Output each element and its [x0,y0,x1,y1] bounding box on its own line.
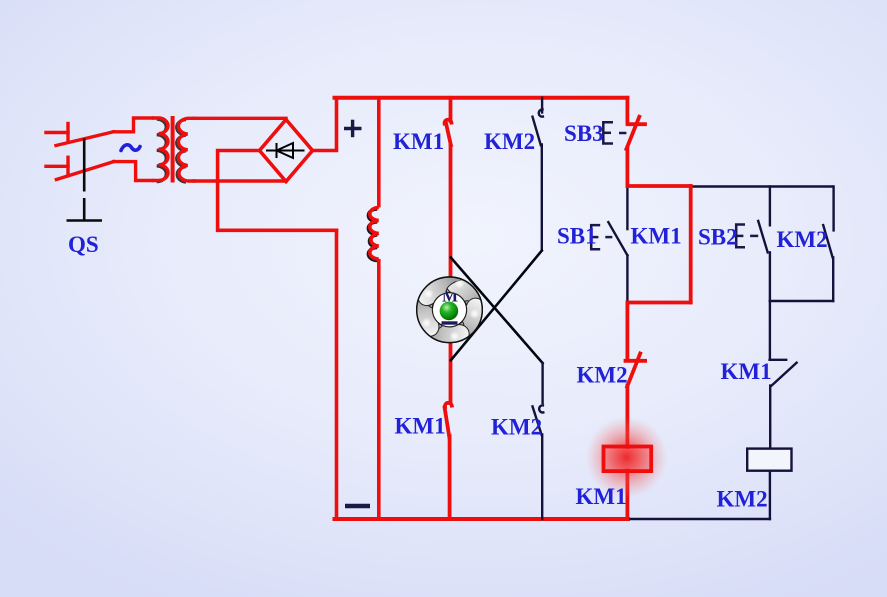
wire: KM1 coil bottom to bus [626,471,630,520]
QS fixed contact tick pole2 [66,157,69,175]
wire: SB3 bottom terminal [626,148,630,186]
wire: QS terminal stub L1 [46,131,68,134]
svg-text:KM2: KM2 [777,227,828,252]
wire: left bus vertical (negative) [335,230,339,519]
KM2 aux contact blade (open) [823,225,832,257]
transformer T secondary winding [178,118,196,181]
KM1 NC contact tick [770,359,787,361]
svg-text:KM1: KM1 [631,224,682,249]
diode symbol inside bridge [266,143,305,158]
QS mechanical link [67,139,103,221]
SB3 NC bridge bar [628,122,646,126]
svg-text:KM1: KM1 [721,359,772,384]
wire: KM2 main contact top terminal [541,98,543,113]
motor outer ring [417,277,483,343]
wire: top DC bus (+) [335,96,628,100]
coil KM1 body (energized) [604,447,652,472]
KM1 lower main contact hook [445,403,452,407]
wire: SB1 top terminal [626,186,628,229]
svg-text:SB2: SB2 [698,225,738,250]
wire: bridge left vertex to negative rail [218,151,337,231]
wire: KM2 aux top terminal [832,187,834,231]
svg-text:KM2: KM2 [484,129,535,154]
svg-text:KM2: KM2 [491,415,542,440]
wire: secondary bottom to bridge bottom vertex [194,179,286,182]
KM2 main contact hook [539,109,543,116]
KM2 lower contact hook [539,405,543,412]
transformer T primary winding [152,118,168,181]
SB1 branch (black) [608,186,833,519]
transformer T core [171,116,175,183]
wire: KM1 main contact top terminal [449,98,453,121]
pushbutton actuator SB2 [736,225,758,248]
wire: red node rail bottom [627,301,690,305]
wire: secondary top to bridge top vertex [194,117,286,120]
motor outer outline [417,277,483,343]
KM2 NC contact blade (closed) [627,354,640,387]
KM1 main contact hook [445,120,452,124]
wire: KM2 aux bottom terminal [832,257,834,301]
svg-text:KM2: KM2 [577,363,628,388]
wire: KM2 NC top terminal [626,303,630,361]
QS knife blade pole2 [56,162,113,180]
wire: SB1 bottom terminal [626,255,628,302]
wire: blade2 to transformer primary bottom [114,162,152,181]
wire: bottom control rail (black) [628,518,770,520]
wire: motor branch through armature [449,145,453,403]
KM1 coil glow [586,417,668,499]
inductor (field winding) branch [370,98,379,519]
KM2 NC contact tick bar [626,359,646,363]
svg-text:SB1: SB1 [557,224,597,249]
SB1 start button contact blade (open) [608,222,627,255]
wire: blade1 to transformer primary top [114,118,153,132]
KM2 main contact blade (open) [533,117,541,146]
wire: control top rail (black) [691,185,834,187]
wire: KM2 NC to KM1 coil [626,386,630,448]
QS fixed contact tick pole1 [66,124,69,143]
motor blades [404,268,491,355]
svg-text:KM1: KM1 [393,129,444,154]
KM1 aux self-hold contact branch (closed, straight) [689,186,693,303]
wire: SB2/KM2aux bottom join [770,300,833,302]
pushbutton actuator SB3 [603,122,626,143]
transformer T primary winding shadow [157,119,167,182]
SB2 button contact blade (open) [758,221,768,253]
wire: QS terminal stub L2 [46,165,68,168]
wire: KM1 NC to KM2 coil [769,386,771,449]
motor DC bar [442,321,458,324]
wire: lower terminal to bottom bus [448,436,452,519]
SB3 / energized control path (red) [626,98,691,519]
QS operator bar [67,219,103,222]
motor inner circle [432,293,466,327]
AC tilde [121,145,140,151]
svg-text:SB3: SB3 [564,121,604,146]
wire: red node rail top [627,184,690,188]
KM1 NC contact blade (open) [772,363,797,386]
svg-text:KM1: KM1 [576,484,627,509]
inductor (field winding) shadow [368,209,377,261]
bridge rectifier VC diamond [260,120,313,182]
wire: crossover diagonal A [451,251,542,361]
KM1 main contact blade (closed) [446,124,451,145]
pushbutton actuator SB1 [591,225,612,249]
wire: bottom DC bus (-) red part [335,517,629,521]
wire: KM2 lower terminal to bottom bus [541,435,543,520]
svg-text:KM1: KM1 [395,414,446,439]
SB3 NC contact blade (closed) [626,117,639,149]
motor green ball [440,302,459,321]
wire: SB3 top terminal [626,98,630,122]
motor blade highlights [422,279,480,342]
node - label [345,504,370,509]
coil KM2 body [747,449,791,471]
wire: KM1 NC branch vertical [769,301,771,360]
KM2 lower main contact blade (open) [533,406,542,435]
wire: KM2 coil bottom to bus [769,471,771,519]
node + label [344,120,362,138]
svg-text:KM2: KM2 [717,487,768,512]
svg-text:QS: QS [68,232,99,257]
KM1 lower main contact blade (closed) [445,408,450,437]
wire: crossover diagonal B [451,258,543,364]
wire: SB2 top terminal [769,187,771,226]
transformer T secondary winding shadow [177,120,186,183]
wire: KM2 branch vertical to crossover [541,145,543,251]
wire: bridge right vertex to plus node [313,98,337,151]
QS knife blade pole1 [56,132,114,146]
wire: KM2 branch below crossover [541,363,543,403]
wire: SB2 bottom terminal [769,252,771,301]
